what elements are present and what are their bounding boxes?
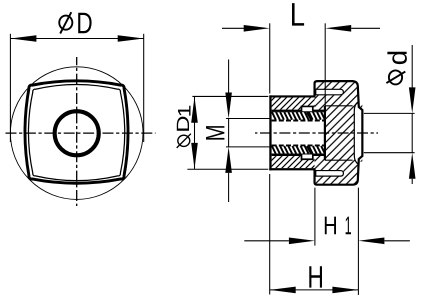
dim phid arrow bottom: [409, 153, 416, 179]
counterbore silhouette top: [325, 105, 353, 107]
dim L tail right: [351, 27, 380, 29]
dim phiD dimension line: [10, 38, 143, 40]
dim H1 arrow right: [358, 238, 384, 245]
dim H arrow right: [332, 287, 358, 294]
head hatched section region: [315, 81, 363, 185]
hub hatch top band: [272, 98, 315, 110]
dim phiD1 extension top: [192, 95, 268, 97]
dim phiD1 line: [194, 97, 196, 169]
dim M tail bottom: [228, 173, 230, 202]
bore line dashed top: [272, 120, 325, 122]
circle diameter D (thin): [10, 67, 143, 200]
dim M line: [228, 119, 230, 147]
dim M extension top: [226, 118, 272, 120]
dim L extension line left: [269, 23, 271, 93]
label-L: [292, 3, 304, 26]
dim phid extension bottom: [364, 152, 415, 154]
dim phid line: [411, 113, 413, 152]
dim M arrow bottom: [225, 147, 232, 173]
label-H1-1: [346, 217, 351, 235]
dim L arrow right: [325, 25, 351, 32]
dim H line: [270, 289, 359, 291]
dim phid tail top: [411, 45, 413, 88]
label-D1-D: [177, 117, 189, 131]
dim phiD1 extension bottom: [187, 168, 268, 170]
dim M extension bottom: [226, 146, 272, 148]
face recess wall (flared): [354, 102, 357, 164]
slot bottom: [316, 171, 344, 177]
dim phiD1 arrow up: [191, 97, 198, 123]
knob square outline outer: [25, 81, 128, 183]
dim phiD extension line left: [9, 34, 11, 142]
head outline: [315, 81, 363, 185]
dim M arrow top: [225, 93, 232, 119]
counterbore silhouette bottom: [325, 159, 353, 161]
dim phid tail bottom: [411, 179, 413, 184]
dim L tail left: [222, 27, 244, 29]
label-H: [309, 266, 322, 287]
dim phid extension top: [364, 112, 415, 114]
dim M tail top: [228, 60, 230, 93]
knob square inner chamfer line: [29, 85, 125, 181]
hub hatch bottom band: [272, 156, 315, 168]
hub top edge: [269, 95, 315, 97]
thread teeth bottom band: [272, 146, 325, 154]
hub bottom edge: [269, 168, 315, 170]
dim H1 tail left: [244, 240, 289, 242]
dim phiD arrow left: [10, 35, 36, 42]
dim L arrow left: [244, 25, 270, 32]
label-D1-1: [178, 106, 190, 116]
dim phiD arrow right: [118, 35, 144, 42]
thread relief tab white top: [302, 106, 313, 110]
dim H1 tail right: [384, 240, 410, 242]
label-d: [387, 52, 407, 64]
hub left face: [269, 95, 271, 170]
dim phiD extension line right: [143, 34, 145, 142]
label-H1-H: [325, 217, 336, 235]
dim phid arrow top: [409, 87, 416, 113]
dim phiD1 arrow down: [191, 143, 198, 169]
thread relief step line top: [272, 106, 324, 110]
thread major line top: [272, 111, 325, 113]
thread major line bottom: [272, 153, 325, 155]
section centerline: [255, 132, 378, 134]
threaded hole ring: [55, 111, 99, 155]
label-D: [78, 13, 91, 33]
bore line dashed bottom: [272, 144, 325, 146]
dim H arrow left: [270, 287, 296, 294]
label-M: [206, 126, 224, 139]
thread relief tab white bottom: [302, 155, 313, 159]
dim H1 arrow left: [289, 238, 315, 245]
dim H1 extension left: [314, 188, 316, 246]
label phi (of phiD1, rotated): [177, 134, 191, 148]
label phi (of phiD): [59, 12, 72, 33]
thread teeth top band: [272, 112, 325, 120]
dim H1/H extension right: [357, 188, 359, 295]
slot top: [316, 89, 344, 95]
bore end line: [324, 106, 326, 160]
label phi (of phid, rotated): [386, 70, 405, 84]
thread relief step line bottom: [272, 155, 324, 159]
centerline vertical: [76, 57, 78, 206]
dim L extension line right: [324, 23, 326, 106]
dim H extension left: [269, 174, 271, 295]
centerline horizontal: [5, 132, 156, 134]
